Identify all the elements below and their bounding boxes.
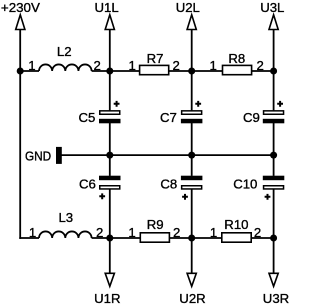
wire bottom rail y=238 [92,237,274,239]
port arrow U3L [260,0,284,30]
wire column U2 lower [191,189,193,274]
svg-text:2: 2 [257,58,264,73]
svg-text:R7: R7 [147,51,164,66]
svg-text:R8: R8 [228,51,245,66]
svg-text:1: 1 [28,58,35,73]
wire column U1 middle [109,123,111,176]
capacitor C10 [233,176,284,200]
wire left vertical rail +230V [19,30,21,239]
wire column U2 upper [191,30,193,111]
svg-text:U3L: U3L [260,0,284,15]
port arrow U1R [94,273,120,304]
svg-text:R9: R9 [147,217,164,232]
wire column U1 upper [109,30,111,111]
capacitor C8 [160,176,202,200]
svg-text:1: 1 [210,58,217,73]
inductor L2 [28,44,101,73]
capacitor C9 [243,101,284,125]
node U1 mid [106,152,113,159]
port arrow U1L [94,0,118,30]
wire column U3 middle [273,123,275,176]
svg-text:2: 2 [96,225,103,240]
svg-text:1: 1 [210,225,217,240]
port arrow U3R [263,273,289,304]
node U3 bottom [270,235,277,242]
port arrow U2R [179,273,205,304]
resistor R9 [128,217,180,242]
capacitor C5 [79,101,121,125]
resistor R10 [210,217,261,242]
capacitor C7 [160,101,202,125]
svg-text:C5: C5 [79,110,96,125]
node U1 top [106,68,113,75]
svg-text:U2R: U2R [179,291,205,304]
svg-text:C10: C10 [233,177,257,192]
svg-text:C7: C7 [160,110,177,125]
wire column U1 lower [109,189,111,274]
svg-text:1: 1 [29,225,36,240]
svg-text:2: 2 [173,225,180,240]
node U2 top [188,68,195,75]
port arrow U2L [176,0,200,30]
svg-text:C9: C9 [243,110,260,125]
wire column U3 lower [273,189,275,274]
svg-text:2: 2 [173,58,180,73]
supply arrow +230V [1,0,40,30]
svg-text:C6: C6 [79,177,96,192]
resistor R8 [210,51,264,75]
node U2 mid [188,152,195,159]
svg-text:U1R: U1R [94,291,120,304]
svg-text:2: 2 [254,225,261,240]
svg-text:L2: L2 [57,44,72,59]
node U2 bottom [188,235,195,242]
svg-text:2: 2 [94,58,101,73]
svg-text:L3: L3 [58,210,73,225]
wire left stub to L2 pin1 [20,70,39,72]
ground symbol GND [25,147,62,164]
wire column U3 upper [273,30,275,111]
svg-text:GND: GND [25,149,51,164]
wire GND mid rail y=155.1 [62,154,274,156]
svg-text:1: 1 [129,58,136,73]
resistor R7 [129,51,180,75]
node U3 mid [270,152,277,159]
inductor L3 [29,210,104,240]
wire top rail y=71 [92,70,274,72]
node U3 top [270,68,277,75]
svg-text:R10: R10 [224,217,248,232]
wire column U2 middle [191,123,193,176]
svg-text:U1L: U1L [94,0,118,15]
wire bottom-left stub to L3 pin1 [19,237,39,239]
svg-text:1: 1 [128,225,135,240]
svg-text:U2L: U2L [176,0,200,15]
node +230V/L2 [17,68,24,75]
svg-text:U3R: U3R [263,291,289,304]
node U1 bottom [106,235,113,242]
capacitor C6 [79,176,121,200]
junction node dots [17,68,277,242]
svg-text:C8: C8 [160,177,177,192]
svg-text:+230V: +230V [1,0,40,15]
